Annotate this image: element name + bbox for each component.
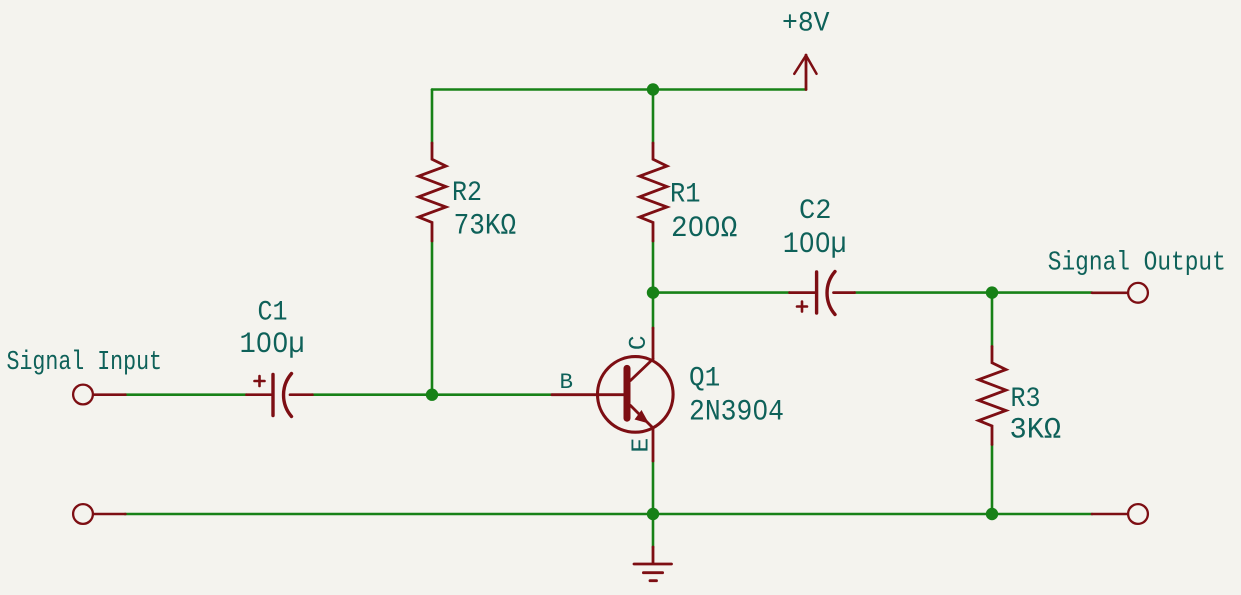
wire Q1 emitter down [652,461,655,514]
wire R2 top [431,90,434,144]
terminal output top [1092,283,1148,303]
wire ground stub [652,514,655,547]
svg-text:C2: C2 [799,196,832,227]
resistor R1 [640,143,667,241]
svg-text:R1: R1 [670,180,701,211]
transistor Q1 [552,328,673,461]
svg-text:Q1: Q1 [689,364,720,395]
wire R1 bottom to collector node [652,241,655,293]
svg-text:73KΩ: 73KΩ [454,209,516,243]
resistor R2 [419,143,446,241]
junction collector node [647,286,659,298]
terminal output bottom [1092,504,1148,524]
resistor R3 [979,347,1006,445]
ground [634,547,672,581]
svg-text:100µ: 100µ [783,227,847,261]
svg-text:R3: R3 [1011,384,1041,415]
junction bottom rail center [647,508,659,520]
junction output node [986,286,998,298]
capacitor C1 [247,374,313,417]
wire R1 top [652,90,655,144]
svg-text:3KΩ: 3KΩ [1010,413,1062,447]
svg-text:100µ: 100µ [240,327,305,361]
wire collector node to Q1 collector [652,293,655,328]
junction top rail [647,83,659,95]
wire C2 to output node [855,291,992,294]
svg-text:Signal Output: Signal Output [1048,248,1226,278]
junction R3 bottom [986,508,998,520]
svg-text:B: B [560,369,574,395]
wire R3 bottom [991,445,994,515]
svg-text:C: C [626,335,653,350]
svg-text:200Ω: 200Ω [671,211,737,245]
svg-text:+8V: +8V [782,9,830,40]
wire output node to R3 top [991,293,994,347]
junction base node [426,389,438,401]
wire bottom rail [125,513,1092,516]
wire R2 bottom to base node [431,241,434,395]
svg-text:2N3904: 2N3904 [689,395,784,429]
svg-text:Signal Input: Signal Input [7,347,163,377]
wire C1 right to base node [312,393,432,396]
capacitor C2 [790,272,855,315]
svg-text:R2: R2 [452,178,482,209]
wire input to C1 [125,393,247,396]
terminal input bottom [73,504,125,524]
wire top rail [432,88,806,91]
terminal input top [73,385,125,405]
wire collector node to C2 [653,291,790,294]
svg-text:C1: C1 [258,297,288,328]
svg-text:E: E [629,438,656,453]
wire output node to output terminal [992,291,1092,294]
power +8V symbol [794,55,816,90]
wire base node to Q1 [432,393,552,396]
